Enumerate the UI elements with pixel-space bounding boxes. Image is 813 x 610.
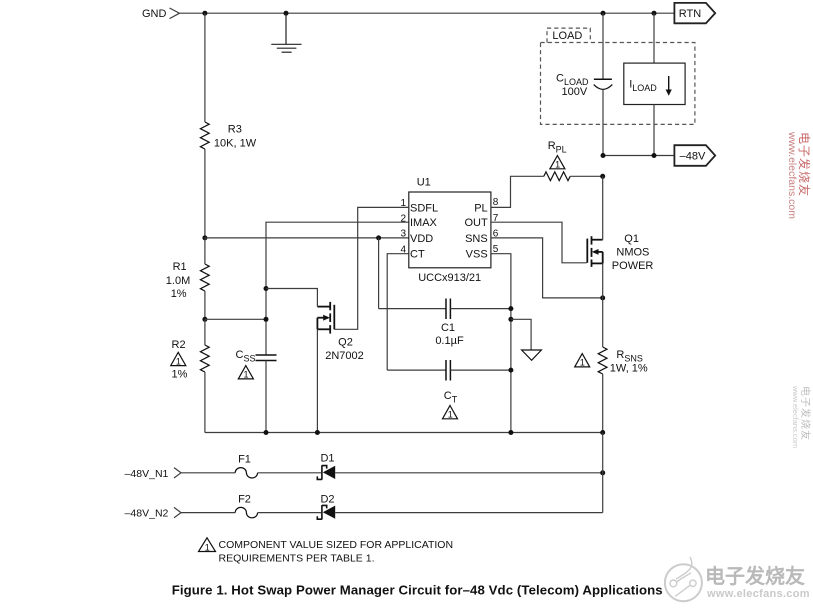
diode D2 anode triangle <box>323 506 335 519</box>
junction VSS line / C1 <box>508 306 513 311</box>
svg-text:1: 1 <box>176 356 181 366</box>
junction IMAX line / divider branch <box>264 317 269 322</box>
svg-text:U1: U1 <box>417 177 431 189</box>
node -48V_N2 input chevron <box>174 507 181 517</box>
svg-text:电子发烧友: 电子发烧友 <box>705 564 805 588</box>
wire IMAX from U1 to CSS line <box>266 222 409 355</box>
capacitor CLOAD plates <box>594 79 613 89</box>
wire N1 row left <box>181 472 235 474</box>
wire C1 right lead <box>450 308 511 310</box>
wire vertical drop from bottom rail to N2 <box>602 433 604 513</box>
svg-text:RPL: RPL <box>548 140 567 155</box>
svg-text:LOAD: LOAD <box>552 30 582 42</box>
svg-text:Figure 1. Hot Swap Power Manag: Figure 1. Hot Swap Power Manager Circuit… <box>172 582 663 597</box>
wire R3 to VDD node <box>204 149 206 238</box>
wire C1 branch down <box>378 238 380 309</box>
svg-text:1.0M: 1.0M <box>166 275 190 287</box>
svg-text:8: 8 <box>493 197 499 208</box>
warning triangle 1 at RPL <box>550 156 565 169</box>
op-amp U1 body UCCx913/21 <box>409 192 491 268</box>
svg-text:UCCx913/21: UCCx913/21 <box>418 272 481 284</box>
watermark right-top rotated elecfans <box>786 131 812 219</box>
svg-text:C1: C1 <box>441 322 455 334</box>
svg-text:Q2: Q2 <box>338 337 353 349</box>
junction VDD line / left rail <box>202 235 207 240</box>
warning triangle 1 at RSNS <box>575 354 590 367</box>
wire Q1 source to RSNS <box>602 263 604 347</box>
capacitor CT plates <box>446 360 450 381</box>
svg-text:COMPONENT VALUE SIZED FOR APPL: COMPONENT VALUE SIZED FOR APPLICATION <box>219 539 454 551</box>
wire -48V rail <box>603 155 674 157</box>
junction RPL / Q1 drain line <box>600 174 605 179</box>
wire divider node to R2 <box>204 319 206 345</box>
wire VDD line to U1 <box>205 237 409 239</box>
svg-text:1: 1 <box>555 160 560 170</box>
current source ILOAD box <box>624 63 685 104</box>
wire N1 row middle <box>258 472 322 474</box>
warning triangle 1 at note <box>199 538 216 552</box>
svg-text:RTN: RTN <box>679 8 701 20</box>
svg-text:–48V_N2: –48V_N2 <box>125 508 169 520</box>
junction -48V rail / ILOAD <box>652 153 657 158</box>
wire N2 row middle <box>258 512 322 514</box>
svg-text:Q1: Q1 <box>624 233 639 245</box>
wire VSS pin5 down <box>491 254 511 433</box>
diode D2 schottky cathode <box>317 505 326 519</box>
junction top rail / R3 <box>202 11 207 16</box>
svg-text:ILOAD: ILOAD <box>629 78 657 93</box>
svg-text:1: 1 <box>400 198 406 209</box>
wire signal ground branch <box>511 319 531 350</box>
wire C1 left lead <box>379 308 446 310</box>
capacitor CSS plates <box>256 355 277 361</box>
junction -48V rail / CLOAD <box>601 153 606 158</box>
svg-text:NMOS: NMOS <box>616 247 649 259</box>
wire ILOAD branch lower <box>653 105 655 156</box>
svg-text:R1: R1 <box>173 261 187 273</box>
svg-text:PL: PL <box>474 202 487 214</box>
svg-text:SNS: SNS <box>465 233 488 245</box>
diode D1 anode triangle <box>323 466 335 479</box>
svg-text:CSS: CSS <box>236 349 256 364</box>
svg-text:CT: CT <box>444 390 458 405</box>
signal ground triangle <box>522 350 542 360</box>
junction bottom rail / VSS line <box>508 430 513 435</box>
svg-text:1: 1 <box>205 542 210 552</box>
svg-text:1W, 1%: 1W, 1% <box>610 363 648 375</box>
junction top rail / ILOAD branch <box>652 11 657 16</box>
wire ILOAD branch upper <box>653 13 655 63</box>
wire OUT pin7 to Q1 gate <box>491 222 587 263</box>
svg-text:7: 7 <box>493 213 499 224</box>
svg-text:3: 3 <box>400 229 406 240</box>
ILOAD arrow <box>668 76 670 93</box>
wire left rail upper segment <box>204 13 206 122</box>
svg-text:OUT: OUT <box>464 217 488 229</box>
svg-text:D1: D1 <box>320 452 334 464</box>
resistor R1 zigzag <box>200 264 209 291</box>
wire bottom VSS rail <box>205 432 603 434</box>
svg-text:2: 2 <box>400 213 406 224</box>
svg-text:1: 1 <box>580 358 585 368</box>
svg-text:IMAX: IMAX <box>410 217 438 229</box>
svg-text:R3: R3 <box>228 124 242 136</box>
svg-text:1%: 1% <box>172 369 188 381</box>
junction VDD line / C1 branch <box>376 235 381 240</box>
wire CT pin lead <box>387 254 409 370</box>
node RTN output arrow <box>674 3 715 23</box>
junction N1 / vertical drop <box>600 470 605 475</box>
junction top rail / CLOAD branch <box>601 11 606 16</box>
svg-text:R2: R2 <box>172 339 186 351</box>
resistor RPL zigzag <box>544 172 570 181</box>
transistor Q1 body arrow <box>592 249 599 255</box>
wire CLOAD branch lower <box>602 89 604 155</box>
junction bottom rail / Q2 source <box>315 430 320 435</box>
svg-text:www.elecfans.com: www.elecfans.com <box>786 131 798 219</box>
wire top GND rail <box>180 12 674 14</box>
node GND input chevron <box>170 8 180 19</box>
junction VSS line / CT <box>508 368 513 373</box>
svg-text:1: 1 <box>243 370 248 380</box>
resistor RSNS zigzag <box>598 347 607 374</box>
wire RSNS to bottom rail <box>602 374 604 433</box>
transistor Q2 body arrow <box>323 315 330 321</box>
svg-text:POWER: POWER <box>612 260 654 272</box>
svg-text:F2: F2 <box>238 493 251 505</box>
svg-text:0.1µF: 0.1µF <box>435 335 464 347</box>
wire Q2 source to bottom rail <box>316 329 318 432</box>
wire N2 row left <box>181 512 235 514</box>
svg-text:CT: CT <box>410 249 425 261</box>
junction bottom rail / RSNS line <box>600 430 605 435</box>
svg-text:RSNS: RSNS <box>616 349 642 364</box>
junction SNS / Q1 source line <box>600 295 605 300</box>
diode D1 schottky cathode <box>317 465 326 479</box>
svg-text:F1: F1 <box>238 453 251 465</box>
wire R2 to bottom rail <box>204 372 206 433</box>
watermark right-middle rotated elecfans <box>791 385 812 448</box>
warning triangle 1 at CSS <box>238 366 253 379</box>
fuse F2 <box>235 507 257 517</box>
svg-text:REQUIREMENTS PER TABLE 1.: REQUIREMENTS PER TABLE 1. <box>219 552 375 564</box>
junction bottom rail / CSS <box>264 430 269 435</box>
svg-text:5: 5 <box>493 244 499 255</box>
junction IMAX line / Q2 drain branch <box>264 286 269 291</box>
transistor Q1 NMOS POWER <box>587 236 602 267</box>
wire N2 row right <box>335 512 603 514</box>
resistor R2 zigzag <box>200 345 209 372</box>
junction top rail / chassis ground <box>284 11 289 16</box>
wire RPL to -48V line <box>570 175 603 177</box>
chassis ground symbol <box>271 13 301 52</box>
svg-text:–48V_N1: –48V_N1 <box>125 468 169 480</box>
resistor R3 zigzag <box>200 122 209 149</box>
junction divider node <box>202 317 207 322</box>
svg-text:–48V: –48V <box>680 151 706 163</box>
svg-text:GND: GND <box>142 8 167 20</box>
svg-text:电子发烧友: 电子发烧友 <box>797 132 812 197</box>
LOAD dashed outline box <box>541 28 695 124</box>
fuse F1 <box>235 468 257 478</box>
warning triangle 1 at CT <box>443 406 458 419</box>
junction VSS line / signal ground branch <box>508 317 513 322</box>
svg-text:www.elecfans.com: www.elecfans.com <box>706 588 810 600</box>
wire CT right lead <box>450 369 511 371</box>
svg-text:VSS: VSS <box>466 249 488 261</box>
wire N1 row right <box>335 472 603 474</box>
wire CT left lead <box>387 369 446 371</box>
svg-text:1: 1 <box>448 410 453 420</box>
node -48V output arrow <box>674 145 715 166</box>
wire divider node to IMAX line <box>205 318 266 320</box>
capacitor C1 plates <box>446 299 450 320</box>
warning triangle 1 at R2 <box>171 352 186 365</box>
svg-text:4: 4 <box>400 245 406 256</box>
svg-text:www.elecfans.com: www.elecfans.com <box>791 385 800 448</box>
wire R1 to divider node <box>204 291 206 319</box>
transistor Q2 2N7002 <box>317 302 334 334</box>
svg-text:1%: 1% <box>171 288 187 300</box>
wire Q2 drain from IMAX junction <box>266 289 317 307</box>
watermark bottom-right elecfans logo <box>665 557 702 601</box>
svg-text:VDD: VDD <box>410 233 433 245</box>
wire CLOAD branch upper <box>602 13 604 79</box>
wire PL pin8 to RPL <box>491 176 544 207</box>
svg-text:D2: D2 <box>320 493 334 505</box>
svg-text:10K, 1W: 10K, 1W <box>214 138 257 150</box>
svg-text:SDFL: SDFL <box>410 202 438 214</box>
node -48V_N1 input chevron <box>174 468 181 478</box>
svg-text:2N7002: 2N7002 <box>325 350 364 362</box>
wire CSS to bottom rail <box>265 361 267 433</box>
svg-text:100V: 100V <box>562 86 588 98</box>
wire VDD node to R1 <box>204 238 206 264</box>
wire SNS pin6 to Q1 source <box>491 238 603 298</box>
svg-text:6: 6 <box>493 228 499 239</box>
wire SDFL pin1 to Q2 gate <box>334 207 409 329</box>
wire Q1 drain up <box>602 176 604 239</box>
